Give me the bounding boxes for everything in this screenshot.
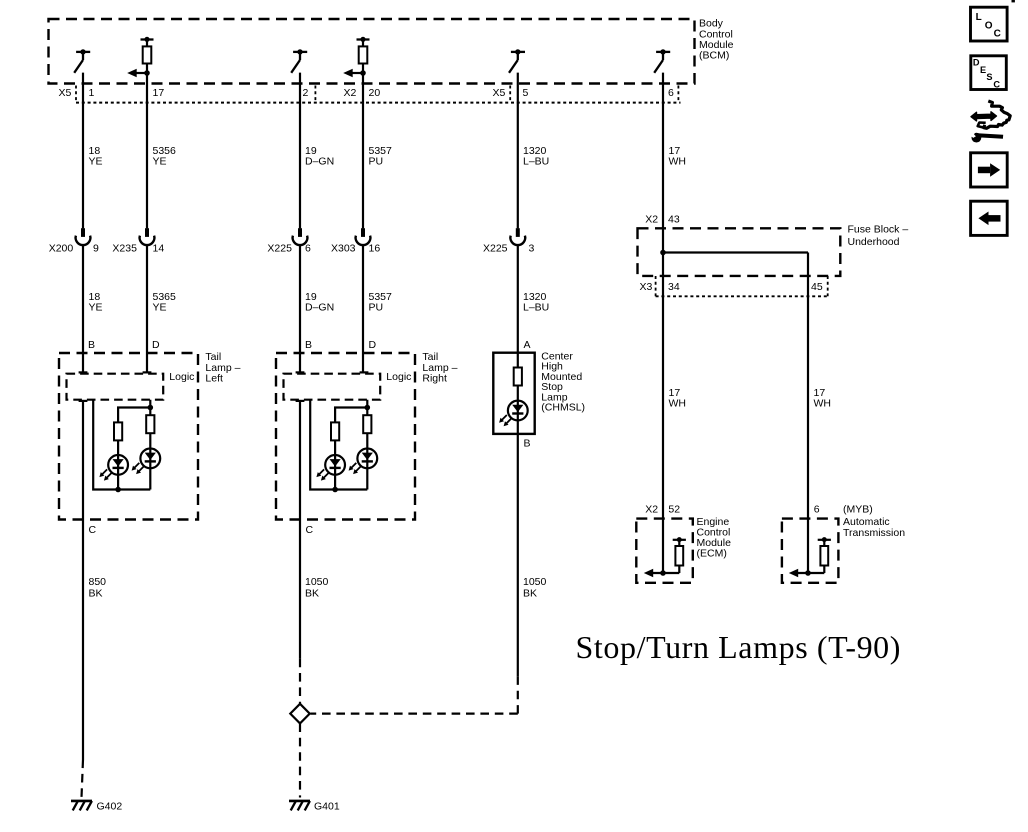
svg-text:1050: 1050 xyxy=(523,576,547,588)
splice diamond xyxy=(290,704,309,724)
Tail Lamp - Left dashed box xyxy=(59,353,198,520)
svg-text:5: 5 xyxy=(523,87,529,99)
svg-text:X225: X225 xyxy=(483,243,508,255)
connector X5 separator (pin 5) xyxy=(509,86,511,103)
inline connector X225 pin 6 xyxy=(293,228,308,245)
wire 18 YE to tail lamp left B xyxy=(82,245,84,372)
svg-text:6: 6 xyxy=(305,243,311,255)
wire resistor to LED 2 (Right lamp) xyxy=(366,433,368,448)
LED bulb 1 (Right lamp) xyxy=(316,455,345,481)
terminal end B (Left lamp) xyxy=(79,371,88,373)
inline connector X303 pin 16 xyxy=(356,228,371,245)
wire 5365 YE to tail lamp left D xyxy=(146,245,148,372)
svg-text:D: D xyxy=(152,339,160,351)
Tail Lamp - Right dashed box xyxy=(276,353,415,520)
inline connector X235 pin 14 xyxy=(140,228,155,245)
bottom junction (Left lamp) xyxy=(115,487,121,493)
svg-text:Fuse Block –: Fuse Block – xyxy=(848,224,909,236)
service/diagnostic icon xyxy=(967,101,1010,143)
svg-text:PU: PU xyxy=(369,302,384,314)
svg-text:43: 43 xyxy=(668,214,680,226)
LOC icon box xyxy=(971,7,1008,41)
ground G402 xyxy=(71,801,92,811)
wire to resistor 2 (Right lamp) xyxy=(366,408,368,416)
X3 strip right separator xyxy=(827,276,829,296)
svg-text:3: 3 xyxy=(529,243,535,255)
ECM internal resistor and arrow xyxy=(644,537,686,577)
svg-text:(CHMSL): (CHMSL) xyxy=(541,402,585,414)
bulb resistor 2 (Left lamp) xyxy=(146,415,154,433)
svg-text:2: 2 xyxy=(303,87,309,99)
terminal end C (Right lamp) xyxy=(296,400,305,402)
svg-text:34: 34 xyxy=(668,281,680,293)
svg-text:X2: X2 xyxy=(645,504,658,516)
svg-text:BK: BK xyxy=(523,588,537,600)
svg-text:1: 1 xyxy=(89,87,95,99)
DESC icon box xyxy=(971,56,1007,90)
svg-text:B: B xyxy=(88,339,95,351)
CHMSL resistor xyxy=(514,368,522,386)
terminal end D (Left lamp) xyxy=(143,371,152,373)
BCM driver output with resistor, pin 17 xyxy=(127,37,153,78)
svg-text:Left: Left xyxy=(205,372,223,384)
wire resistor to LED 1 (Left lamp) xyxy=(117,440,119,455)
wire resistor to LED 2 (Left lamp) xyxy=(149,433,151,448)
bottom junction (Right lamp) xyxy=(332,487,338,493)
bulb resistor 2 (Right lamp) xyxy=(363,415,371,433)
fuse block X3 strip bottom dotted line xyxy=(656,295,828,297)
svg-text:X5: X5 xyxy=(59,87,72,99)
terminal end B (Right lamp) xyxy=(296,371,305,373)
wire LED 2 to bottom (Right lamp) xyxy=(366,468,368,489)
(MYB) Automatic Transmission dashed box xyxy=(782,519,839,583)
svg-text:YE: YE xyxy=(153,302,167,314)
BCM stop lamp switch output, pin 1 xyxy=(74,49,90,73)
wire 1050 BK from tail lamp right C xyxy=(299,401,301,659)
LED bulb 2 (Left lamp) xyxy=(132,449,161,475)
svg-text:WH: WH xyxy=(669,156,687,168)
svg-text:20: 20 xyxy=(369,87,381,99)
bulb circuit outer path (Right lamp) xyxy=(310,400,367,490)
svg-text:D–GN: D–GN xyxy=(305,302,334,314)
junction (Right lamp) xyxy=(365,405,371,411)
svg-text:45: 45 xyxy=(811,281,823,293)
LED bulb 1 (Left lamp) xyxy=(99,455,128,481)
wire 850 BK from tail lamp left C xyxy=(82,401,84,760)
svg-text:C: C xyxy=(306,524,314,536)
CHMSL LED xyxy=(499,401,528,427)
svg-text:Logic: Logic xyxy=(386,371,411,383)
svg-text:BK: BK xyxy=(305,588,319,600)
svg-text:(BCM): (BCM) xyxy=(699,49,729,61)
dashed wire CHMSL to splice (horizontal) xyxy=(311,712,518,714)
svg-text:Right: Right xyxy=(422,372,447,384)
dashed wire splice to G401 xyxy=(299,723,301,797)
svg-text:A: A xyxy=(524,339,531,351)
junction (Left lamp) xyxy=(148,405,154,411)
fuse block junction xyxy=(660,250,666,256)
bulb resistor 1 (Right lamp) xyxy=(331,422,339,440)
svg-text:850: 850 xyxy=(89,576,107,588)
svg-text:B: B xyxy=(524,438,531,450)
ground G401 xyxy=(289,801,310,811)
BCM stop lamp switch output, pin 5 xyxy=(509,49,525,73)
fuse block internal wire xyxy=(663,251,808,253)
bulb circuit outer path (Left lamp) xyxy=(93,400,150,490)
wire LED 1 to bottom (Left lamp) xyxy=(117,475,119,490)
bulb right branch top (Left lamp) xyxy=(118,400,150,423)
Fuse Block - Underhood dashed box xyxy=(638,228,841,276)
Logic box (Right lamp) xyxy=(284,374,381,400)
dashed wire CHMSL to splice (vertical) xyxy=(517,676,519,713)
corner speck xyxy=(1012,0,1015,2)
svg-text:X303: X303 xyxy=(331,243,356,255)
BCM connector strip bottom dotted line xyxy=(76,102,681,104)
svg-text:YE: YE xyxy=(89,302,103,314)
svg-text:D–GN: D–GN xyxy=(305,156,334,168)
svg-text:16: 16 xyxy=(369,243,381,255)
svg-text:YE: YE xyxy=(89,156,103,168)
X3 strip left separator xyxy=(655,276,657,296)
wire LED 1 to bottom (Right lamp) xyxy=(334,475,336,490)
connector separator (pin 6) xyxy=(677,86,679,103)
svg-text:X2: X2 xyxy=(645,214,658,226)
BCM stop lamp switch output, pin 2 xyxy=(291,49,307,73)
svg-text:D: D xyxy=(369,339,377,351)
bulb resistor 1 (Left lamp) xyxy=(114,422,122,440)
wire 17 WH from BCM pin 6 to ECM xyxy=(662,73,664,573)
svg-text:Transmission: Transmission xyxy=(843,527,905,539)
BCM driver output with resistor, pin 20 xyxy=(343,37,369,78)
svg-text:Underhood: Underhood xyxy=(848,236,900,248)
svg-text:E: E xyxy=(980,65,986,75)
wire to resistor 2 (Left lamp) xyxy=(149,408,151,416)
svg-text:YE: YE xyxy=(153,156,167,168)
svg-text:52: 52 xyxy=(668,504,680,516)
CHMSL wire LED to B xyxy=(517,420,519,434)
svg-text:(ECM): (ECM) xyxy=(697,548,727,560)
next page icon (right arrow) xyxy=(971,153,1008,187)
wire 18 YE from BCM pin 1 xyxy=(82,73,84,229)
svg-text:C: C xyxy=(994,29,1001,40)
svg-text:S: S xyxy=(986,72,992,82)
svg-text:C: C xyxy=(89,524,97,536)
svg-text:X2: X2 xyxy=(344,87,357,99)
wire 5357 PU to tail lamp right D xyxy=(362,245,364,372)
svg-text:WH: WH xyxy=(669,397,687,409)
terminal end C (Left lamp) xyxy=(79,400,88,402)
wire 1320 L-BU to CHMSL A xyxy=(517,245,519,367)
previous page icon (left arrow) xyxy=(971,201,1008,235)
wire 19 D-GN to tail lamp right B xyxy=(299,245,301,372)
svg-text:L–BU: L–BU xyxy=(523,156,549,168)
svg-text:G401: G401 xyxy=(314,801,340,813)
svg-text:B: B xyxy=(305,339,312,351)
inline connector X225 pin 3 xyxy=(510,228,525,245)
svg-text:(MYB): (MYB) xyxy=(843,504,873,516)
CHMSL solid box xyxy=(493,353,534,434)
svg-text:C: C xyxy=(993,79,1000,89)
svg-text:X200: X200 xyxy=(49,243,74,255)
svg-text:L–BU: L–BU xyxy=(523,302,549,314)
CHMSL wire resistor to LED xyxy=(517,386,519,401)
svg-text:X5: X5 xyxy=(493,87,506,99)
wire 1050 BK from CHMSL B xyxy=(517,434,519,676)
connector X5/X2 separator xyxy=(314,86,316,103)
svg-text:PU: PU xyxy=(369,156,384,168)
svg-text:17: 17 xyxy=(153,87,165,99)
Logic box (Left lamp) xyxy=(67,374,164,400)
wire 5357 PU from BCM pin 20 xyxy=(362,73,364,228)
terminal end D (Right lamp) xyxy=(360,371,369,373)
dashed wire to splice xyxy=(299,659,301,704)
svg-text:9: 9 xyxy=(93,243,99,255)
transmission internal resistor and arrow xyxy=(789,537,831,577)
bulb right branch top (Right lamp) xyxy=(335,400,367,423)
wire 17 WH fuse block to MYB xyxy=(807,253,809,574)
BCM stop lamp switch output, pin 6 xyxy=(654,49,670,73)
wire resistor to LED 1 (Right lamp) xyxy=(334,440,336,455)
Body Control Module (BCM) dashed box xyxy=(49,19,695,84)
wire LED 2 to bottom (Left lamp) xyxy=(149,468,151,489)
svg-text:X3: X3 xyxy=(640,281,653,293)
svg-text:Logic: Logic xyxy=(169,371,194,383)
svg-text:X225: X225 xyxy=(267,243,292,255)
svg-text:BK: BK xyxy=(89,588,103,600)
svg-text:14: 14 xyxy=(153,243,165,255)
svg-text:Stop/Turn Lamps (T-90): Stop/Turn Lamps (T-90) xyxy=(576,629,902,665)
svg-text:1050: 1050 xyxy=(305,576,329,588)
connector X5 separator xyxy=(75,86,77,103)
wire 19 D-GN from BCM pin 2 xyxy=(299,73,301,229)
svg-text:L: L xyxy=(976,12,982,23)
LED bulb 2 (Right lamp) xyxy=(349,449,378,475)
svg-text:6: 6 xyxy=(814,504,820,516)
Engine Control Module (ECM) dashed box xyxy=(636,519,693,583)
wire 5356 YE from BCM pin 17 xyxy=(146,73,148,228)
svg-text:O: O xyxy=(985,21,993,32)
svg-text:G402: G402 xyxy=(97,801,123,813)
svg-text:D: D xyxy=(973,58,980,68)
wire 1320 L-BU from BCM pin 5 xyxy=(517,73,519,229)
inline connector X200 pin 9 xyxy=(76,228,91,245)
dashed wire to G402 xyxy=(82,760,84,798)
svg-text:WH: WH xyxy=(814,397,832,409)
svg-text:6: 6 xyxy=(668,87,674,99)
svg-text:X235: X235 xyxy=(112,243,137,255)
